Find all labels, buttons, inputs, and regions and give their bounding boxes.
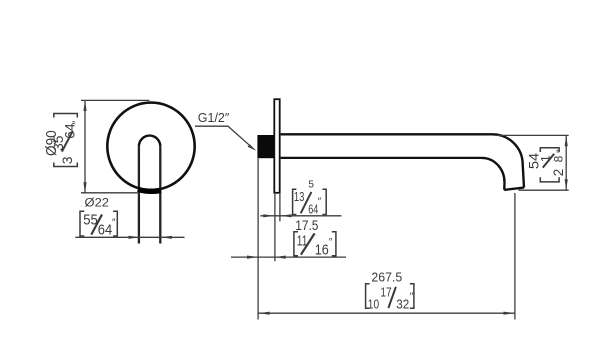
label 2-1/8 quote rotated: [555, 149, 566, 153]
label [3 35/64"] rotated: [50, 114, 83, 167]
leader line for G1/2: [195, 126, 251, 146]
dimension 54 line: [565, 136, 567, 191]
side view G1/2 nipple (black): [257, 135, 273, 158]
dimension 267.5 line: [258, 312, 514, 314]
front view spout slot arch: [139, 136, 160, 147]
extension line outlet center: [514, 193, 516, 320]
front view tube right edge: [159, 146, 161, 243]
label 1 rotated: [539, 155, 553, 162]
svg-text:″: ″: [318, 197, 322, 208]
label [2 1/8"] bracket bottom: [540, 177, 559, 182]
dimension Ø22 line: [75, 236, 184, 238]
svg-text:Ø22: Ø22: [85, 196, 110, 210]
svg-text:G1/2″: G1/2″: [198, 110, 230, 125]
svg-text:″: ″: [555, 149, 566, 153]
label 3-35/64 slash: [62, 131, 73, 152]
dimension 5 line: [260, 215, 341, 217]
dimension 17.5 arrow right: [275, 256, 286, 259]
label 8 rotated: [551, 155, 565, 162]
svg-text:267.5: 267.5: [371, 269, 402, 284]
svg-text:8: 8: [551, 155, 565, 162]
side view wall plate (escutcheon edge): [274, 99, 279, 193]
dimension Ø90 extension line top: [81, 99, 150, 101]
svg-text:10: 10: [368, 297, 379, 311]
dimension 267.5 arrow right: [504, 312, 515, 315]
leader arrowhead: [248, 144, 257, 151]
svg-text:17: 17: [380, 286, 391, 300]
svg-text:″: ″: [112, 217, 116, 228]
svg-text:3: 3: [59, 156, 75, 164]
front view thick bottom arc segment: [138, 189, 161, 191]
svg-text:17.5: 17.5: [295, 218, 318, 233]
svg-text:13: 13: [294, 190, 305, 204]
svg-text:16: 16: [315, 242, 329, 259]
label [2 1/8"] bracket top: [540, 148, 559, 152]
dimension 17.5 line: [231, 256, 346, 258]
front view escutcheon circle Ø90: [107, 103, 194, 190]
label [13/64"]: [293, 189, 327, 216]
dimension 5 arrow right: [281, 214, 292, 217]
side view inner bend: [482, 158, 505, 190]
label 2-1/8 slash: [543, 154, 554, 168]
label Ø90 rotated: [43, 130, 60, 156]
dimension Ø22 arrow left: [129, 236, 140, 239]
dimension Ø90 arrow up: [83, 100, 86, 111]
dimension 54 arrow up: [565, 136, 568, 147]
dimension Ø90 vertical line: [84, 101, 86, 193]
dimension Ø90 arrow down: [83, 182, 86, 193]
svg-text:″: ″: [71, 121, 83, 125]
label [11/16"]: [294, 232, 336, 259]
dimension 5 arrow left: [263, 214, 274, 217]
side view tube top line: [281, 133, 493, 135]
dimension 54 arrow down: [565, 179, 568, 190]
extension line plate back: [274, 194, 276, 261]
dimension 54 extension bottom: [519, 189, 569, 191]
dimension Ø22 arrow right: [161, 236, 172, 239]
extension line plate front: [279, 194, 281, 221]
front view tube left edge: [138, 146, 140, 243]
label 2 rotated: [551, 169, 566, 177]
dimension Ø90 extension line bottom: [81, 192, 139, 194]
side view tube bottom line: [281, 157, 482, 159]
label [55/64"]: [80, 211, 117, 238]
label 54 rotated: [527, 152, 542, 169]
svg-text:2: 2: [551, 169, 566, 177]
svg-text:64: 64: [98, 222, 112, 239]
dimension 17.5 arrow left: [247, 256, 258, 259]
label [10 17/32"]: [366, 284, 414, 312]
dimension 54 extension top: [496, 134, 569, 136]
side view outlet bottom edge: [504, 188, 524, 190]
dimension 267.5 arrow left: [259, 312, 270, 315]
extension line wall plane: [257, 159, 259, 320]
side view outer bend: [493, 134, 525, 187]
svg-text:32: 32: [396, 297, 409, 311]
svg-text:″: ″: [329, 237, 333, 248]
svg-text:5: 5: [308, 179, 314, 190]
